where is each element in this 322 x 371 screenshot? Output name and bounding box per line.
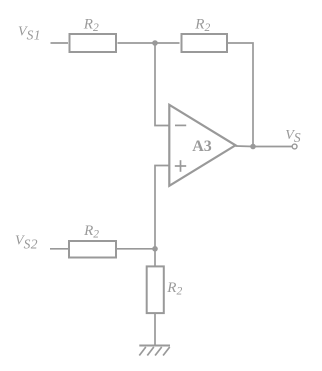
wire Vs1 to R left: [51, 42, 69, 44]
ground: [139, 346, 170, 356]
svg-text:A3: A3: [192, 138, 212, 155]
junction node A: [152, 40, 158, 46]
svg-text:VS: VS: [285, 128, 301, 145]
op-amp A3: [169, 105, 235, 186]
op-amp minus sign: [175, 124, 186, 126]
wire output to terminal: [253, 146, 292, 148]
svg-text:R2: R2: [194, 16, 210, 34]
wire Vs2 to R left: [50, 248, 68, 250]
terminal Vs: [292, 144, 297, 149]
svg-text:VS1: VS1: [18, 25, 41, 43]
label A3: [192, 138, 212, 155]
node Vs1 label: [18, 25, 41, 43]
label R2 (bottom-left): [83, 223, 99, 241]
svg-text:R2: R2: [166, 280, 182, 298]
wire non-inverting input to node B: [155, 166, 169, 249]
wire node A to feedback R left: [155, 42, 180, 44]
node Vs2 label: [15, 234, 38, 252]
resistor R2 top-left: [70, 34, 117, 52]
svg-text:R2: R2: [83, 17, 99, 35]
svg-text:VS2: VS2: [15, 234, 38, 252]
resistor R2 feedback: [182, 34, 228, 52]
junction output node: [250, 144, 256, 150]
label R2 (vertical): [166, 280, 182, 298]
wire Rg to ground: [154, 314, 156, 346]
wire R to node A: [118, 42, 156, 44]
wire R to node B: [117, 248, 155, 250]
label R2 (feedback): [194, 16, 210, 34]
node Vs label: [285, 128, 301, 145]
wire feedback R right to corner: [228, 43, 253, 147]
resistor R2 bottom-left: [69, 241, 116, 258]
op-amp plus sign: [175, 160, 186, 172]
junction node B: [152, 246, 158, 252]
wire op-amp output: [236, 145, 254, 148]
svg-text:R2: R2: [83, 223, 99, 241]
label R2 (top-left): [83, 17, 99, 35]
wire node B down to Rg: [154, 249, 156, 266]
resistor R2 vertical: [147, 266, 164, 313]
wire node A down to inverting input: [155, 43, 169, 126]
